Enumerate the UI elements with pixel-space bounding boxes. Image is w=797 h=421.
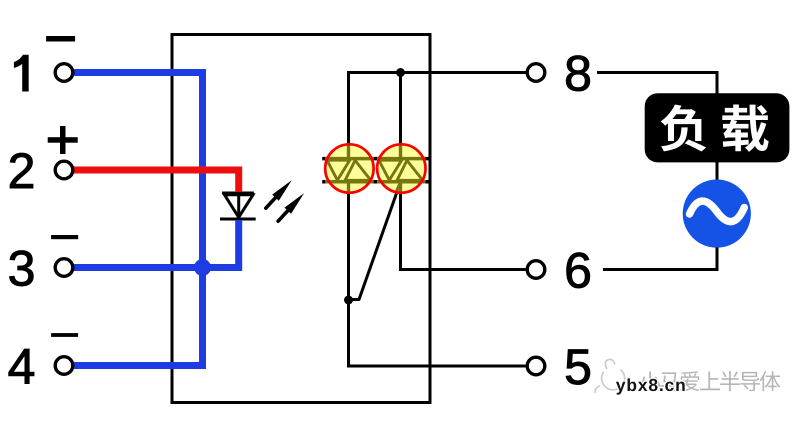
terminal circle pin 1	[55, 64, 73, 82]
svg-text:2: 2	[8, 143, 36, 199]
pin number labels	[8, 46, 592, 396]
watermark ybx8.cn (outlined glyph paths)	[616, 378, 685, 394]
node: blue junction dot (pins 1/3/4 common)	[194, 259, 211, 276]
wire: pin8 to load (external)	[597, 73, 717, 96]
svg-text:3: 3	[8, 241, 36, 297]
LED light emission arrow 1	[266, 180, 292, 208]
polarity minus above pin 1	[46, 36, 75, 42]
terminal circle pin 8	[527, 64, 545, 82]
svg-text:8: 8	[564, 46, 592, 102]
terminal circle pin 5	[527, 357, 545, 375]
polarity minus above pin 4	[51, 333, 78, 337]
svg-text:5: 5	[564, 339, 592, 395]
label: 负 (load char 1) white glyph	[661, 105, 707, 152]
triac Q1 (yellow circle with bidirectional triac symbol)	[376, 143, 427, 194]
triac symbol horizontal bars (black tips outside yellow)	[322, 159, 429, 182]
watermark horse logo (decorative-ish but drawn)	[595, 359, 624, 393]
AC source V1 (blue circle with sine wave)	[683, 180, 751, 248]
wire: AC source to pin 6 (external)	[603, 248, 717, 270]
node: dot on pin5 vertical (gate tie point)	[344, 296, 353, 305]
device outline (SSR package rectangle)	[172, 35, 430, 403]
LED D1 (infrared emitter diode, pointing down)	[220, 193, 256, 219]
terminal circle pin 4	[55, 357, 73, 375]
wire: pin8 internal net (top horizontal + left vertical to phototriac)	[349, 73, 527, 367]
terminal circle pin 3	[55, 259, 73, 277]
wire: blue net pin3 to LED cathode	[73, 220, 239, 268]
node: junction dot on pin8 net	[396, 68, 405, 77]
polarity minus above pin 3	[51, 235, 78, 239]
polarity plus above pin 2	[48, 126, 78, 154]
wire: blue net pin1 to pin4 (input common)	[73, 73, 203, 366]
label: 载 (load char 2) white glyph	[722, 105, 768, 152]
terminal circle pin 6	[527, 261, 545, 279]
wire: main triac top vertical from node on pin8 net	[399, 73, 402, 146]
watermark gray text 小马爱上半导体	[640, 371, 781, 391]
svg-text:6: 6	[564, 243, 592, 299]
svg-text:4: 4	[8, 339, 36, 395]
label pin 1 (custom glyph, Arial-style no foot)	[14, 55, 28, 91]
LED light emission arrow 2	[278, 193, 304, 221]
wire: main triac bottom vertical + horizontal to pin 6	[401, 192, 526, 270]
phototriac U1 (yellow circle with bidirectional triac symbol)	[324, 143, 375, 194]
load box (black rounded rect, Chinese: fu zai = LOAD)	[645, 93, 790, 162]
terminal circle pin 2	[55, 161, 73, 179]
wire: red net pin2 (+) to LED anode	[73, 170, 239, 192]
wire: gate diagonal (switch arm) from main triac to pin5 net	[350, 182, 401, 300]
wire: load to AC source	[716, 162, 719, 181]
